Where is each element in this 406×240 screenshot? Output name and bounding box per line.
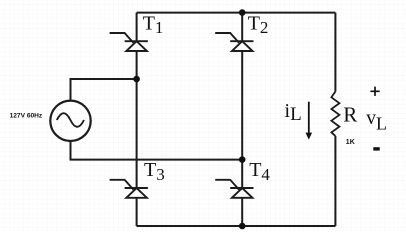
svg-text:iL: iL [285, 100, 302, 125]
svg-text:R: R [343, 103, 357, 127]
svg-text:127V 60Hz: 127V 60Hz [10, 112, 43, 119]
svg-text:1K: 1K [346, 139, 355, 146]
